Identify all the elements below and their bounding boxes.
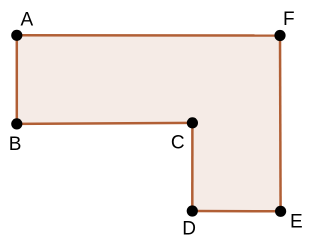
svg-text:B: B: [9, 134, 22, 155]
point C: [187, 117, 198, 128]
svg-text:A: A: [21, 9, 34, 30]
point B: [11, 118, 22, 129]
point A: [11, 30, 22, 41]
edge AF: [17, 34, 280, 37]
edge FE: [279, 36, 282, 212]
point E: [275, 206, 286, 217]
edge CB: [17, 123, 193, 124]
point F: [274, 30, 285, 41]
polygon ABCDEF fill: [17, 35, 281, 211]
edge BA: [16, 35, 19, 124]
edge DC: [191, 123, 194, 211]
svg-text:C: C: [171, 133, 185, 154]
point D: [187, 205, 198, 216]
edge ED: [192, 210, 280, 213]
svg-text:F: F: [283, 9, 295, 30]
svg-text:E: E: [290, 212, 303, 233]
svg-text:D: D: [182, 219, 196, 240]
